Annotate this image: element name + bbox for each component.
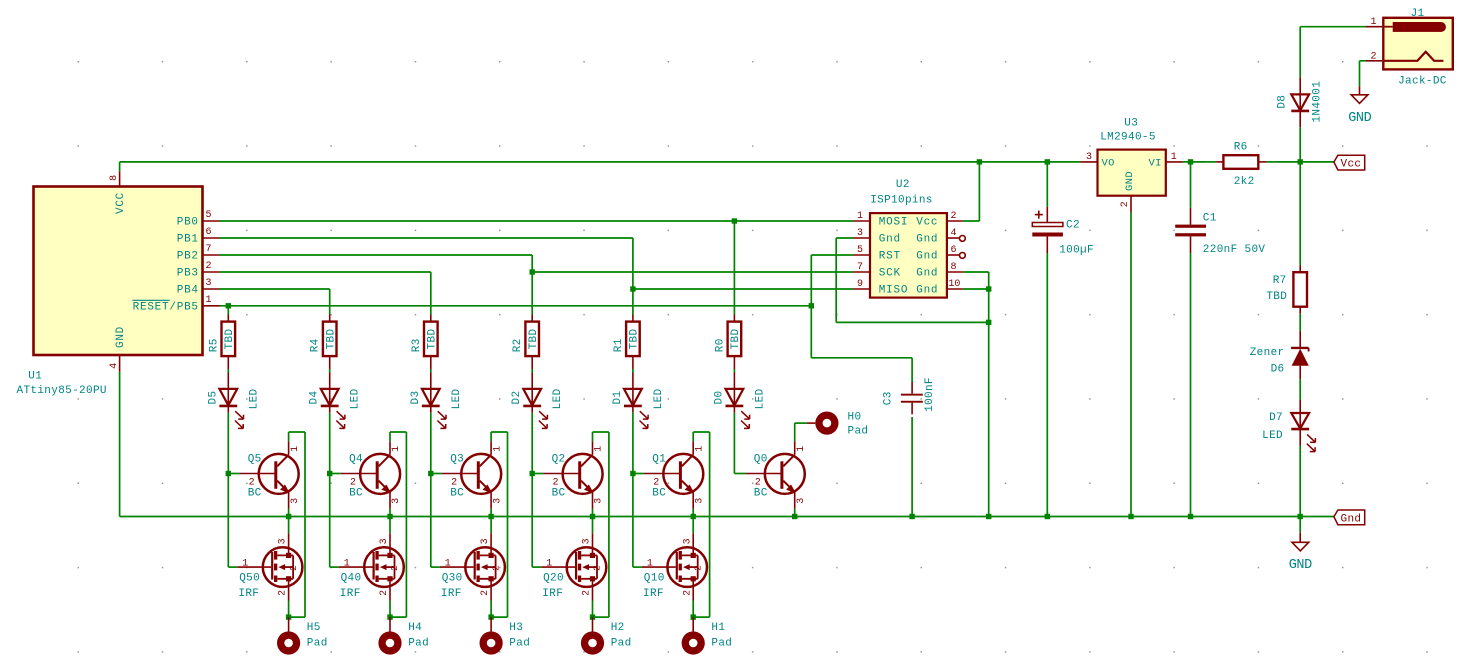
wire source to pad	[490, 601, 492, 618]
diode D8 1N4001	[1277, 81, 1324, 127]
svg-text:VO: VO	[1102, 157, 1115, 169]
wire J1 pin1	[1300, 26, 1383, 28]
svg-text:C1: C1	[1203, 213, 1217, 225]
wire	[531, 406, 533, 474]
svg-text:H5: H5	[307, 622, 321, 634]
svg-text:VCC: VCC	[115, 192, 127, 214]
svg-text:2: 2	[389, 565, 400, 571]
transistor Q0 BC	[734, 441, 807, 509]
svg-text:2: 2	[278, 590, 289, 596]
resistor R3 TBD	[411, 322, 439, 357]
svg-text:9: 9	[857, 279, 863, 290]
svg-text:8: 8	[109, 175, 120, 181]
svg-text:Q10: Q10	[644, 573, 665, 585]
svg-text:1: 1	[445, 558, 451, 569]
regulator U3 LM2940-5	[1080, 118, 1182, 213]
junction pin10	[986, 286, 991, 291]
wire R6 to Vcc label	[1275, 161, 1334, 163]
svg-text:PB4: PB4	[177, 285, 199, 297]
wire RESET to C3	[811, 306, 912, 358]
svg-text:H1: H1	[711, 622, 725, 634]
svg-text:Q40: Q40	[341, 573, 362, 585]
svg-text:1: 1	[796, 446, 807, 452]
svg-text:TBD: TBD	[629, 329, 641, 350]
wire RESET/PB5 rail	[220, 305, 812, 307]
LED D3	[410, 388, 463, 428]
junction C2/Vcc	[1045, 159, 1050, 164]
wire Vcc rail top	[120, 161, 1081, 163]
svg-text:3: 3	[391, 498, 402, 504]
svg-text:1: 1	[290, 446, 301, 452]
junction source/pad	[286, 614, 291, 619]
wire U3 out	[1183, 161, 1207, 163]
svg-text:2: 2	[379, 590, 390, 596]
svg-text:Q3: Q3	[450, 454, 464, 466]
junction PB0/R0	[732, 218, 737, 223]
wire J1 pin2 to GND	[1360, 61, 1367, 95]
svg-text:2: 2	[552, 478, 558, 489]
svg-text:2: 2	[1120, 201, 1131, 207]
junction base/gate	[428, 471, 433, 476]
wire C1 to GND rail	[1190, 253, 1192, 517]
wire emitter to GND rail	[288, 509, 290, 517]
svg-text:D1: D1	[612, 391, 624, 405]
svg-text:Zener: Zener	[1250, 347, 1285, 359]
svg-text:LED: LED	[1262, 430, 1283, 442]
svg-text:H2: H2	[611, 622, 625, 634]
svg-text:1: 1	[857, 211, 863, 222]
svg-text:8: 8	[951, 262, 957, 273]
transistor Q4 BC	[330, 441, 403, 509]
wire GND rail to MOSFET drain	[389, 517, 391, 534]
svg-text:D0: D0	[713, 391, 725, 405]
svg-text:3: 3	[857, 228, 863, 239]
LED D7	[1262, 412, 1315, 451]
svg-text:Gnd: Gnd	[916, 268, 938, 280]
svg-text:C2: C2	[1066, 220, 1080, 232]
wire emitter to GND rail	[794, 509, 796, 517]
capacitor C3 100nF	[882, 358, 936, 415]
svg-text:GND: GND	[1124, 171, 1136, 191]
wire	[329, 356, 331, 389]
power symbol GND under J1	[1348, 95, 1371, 126]
wire RST down to R5	[227, 306, 229, 322]
wire GND rail to MOSFET drain	[490, 517, 492, 534]
svg-text:5: 5	[857, 245, 863, 256]
svg-text:1: 1	[492, 446, 503, 452]
wire collector loop	[491, 432, 507, 617]
junction base/gate	[630, 471, 635, 476]
resistor R4 TBD	[310, 322, 338, 357]
svg-text:J1: J1	[1411, 8, 1425, 20]
svg-text:Jack-DC: Jack-DC	[1398, 76, 1447, 88]
svg-text:3: 3	[582, 538, 593, 544]
svg-text:Q30: Q30	[442, 573, 463, 585]
svg-text:3: 3	[682, 538, 693, 544]
svg-text:2: 2	[451, 478, 457, 489]
svg-text:3: 3	[206, 278, 212, 289]
MOSFET Q10 IRF	[633, 474, 707, 601]
svg-text:TBD: TBD	[325, 329, 337, 350]
svg-text:TBD: TBD	[224, 329, 236, 350]
svg-text:ATtiny85-20PU: ATtiny85-20PU	[17, 385, 107, 397]
svg-text:1: 1	[1370, 17, 1376, 28]
svg-text:VI: VI	[1148, 157, 1161, 169]
wire source to pad	[389, 601, 391, 618]
svg-text:R4: R4	[310, 338, 322, 352]
svg-text:PB3: PB3	[177, 268, 199, 280]
junction C2/GND	[1045, 514, 1050, 519]
svg-text:Vcc: Vcc	[916, 217, 938, 229]
svg-text:2: 2	[490, 565, 501, 571]
wire U2 pin5 RST	[811, 255, 853, 306]
svg-text:3: 3	[694, 498, 705, 504]
svg-text:Q2: Q2	[552, 454, 566, 466]
svg-text:Q50: Q50	[239, 573, 260, 585]
wire	[430, 406, 432, 474]
pad H2	[581, 617, 632, 655]
svg-text:Q5: Q5	[248, 454, 262, 466]
svg-text:H4: H4	[408, 622, 422, 634]
svg-text:1: 1	[546, 558, 552, 569]
junction emitter/GND rail	[387, 514, 392, 519]
svg-text:GND: GND	[115, 326, 127, 348]
svg-text:BC: BC	[552, 488, 566, 500]
svg-text:3: 3	[796, 498, 807, 504]
svg-text:Gnd: Gnd	[916, 234, 938, 246]
svg-text:1: 1	[344, 558, 350, 569]
wire	[1299, 366, 1301, 413]
svg-text:MISO: MISO	[879, 285, 908, 297]
wire	[632, 356, 634, 389]
MOSFET Q40 IRF	[330, 474, 404, 601]
wire	[733, 406, 735, 474]
svg-text:IRF: IRF	[238, 588, 259, 600]
wire	[430, 356, 432, 389]
svg-text:Gnd: Gnd	[1341, 513, 1362, 525]
power symbol GND bottom right	[1289, 517, 1312, 574]
wire Vcc node down to R7	[1299, 162, 1301, 272]
wire PB1	[220, 237, 633, 239]
resistor R1 TBD	[613, 322, 641, 357]
svg-text:TBD: TBD	[528, 329, 540, 350]
svg-text:1: 1	[1171, 152, 1177, 163]
svg-text:Q0: Q0	[754, 454, 768, 466]
svg-text:PB1: PB1	[177, 234, 199, 246]
svg-text:TBD: TBD	[427, 329, 439, 350]
svg-text:D3: D3	[410, 391, 422, 405]
LED D5	[207, 388, 260, 428]
junction emitter/GND rail	[286, 514, 291, 519]
svg-text:6: 6	[206, 227, 212, 238]
wire GND rail to MOSFET drain	[288, 517, 290, 534]
svg-text:3: 3	[480, 538, 491, 544]
connector J1 Jack-DC	[1366, 8, 1453, 88]
transistor Q3 BC	[431, 441, 504, 509]
wire PB0 to MOSI	[220, 220, 854, 222]
junction RESET/RST link	[809, 303, 814, 308]
svg-text:D2: D2	[511, 391, 523, 405]
svg-text:Q1: Q1	[652, 454, 666, 466]
LED D0	[713, 388, 766, 428]
resistor R5 TBD	[208, 322, 236, 357]
svg-text:4: 4	[951, 228, 957, 239]
wire PB4 down to R4	[329, 289, 331, 322]
svg-text:MOSI: MOSI	[879, 217, 908, 229]
svg-text:LED: LED	[754, 388, 766, 409]
wire U2 pin10	[963, 288, 989, 290]
wire U2 pin8	[963, 272, 989, 517]
svg-text:RST: RST	[879, 251, 901, 263]
wire PB2	[220, 254, 533, 256]
global label Gnd	[1300, 510, 1365, 525]
svg-text:2: 2	[288, 565, 299, 571]
wire emitter to GND rail	[389, 509, 391, 517]
svg-text:U1: U1	[28, 371, 42, 383]
wire U2 pin2 Vcc riser	[963, 162, 980, 221]
wire D7 to GND rail	[1299, 429, 1301, 516]
svg-text:Pad: Pad	[307, 637, 328, 649]
wire	[531, 356, 533, 389]
wire PB2 down to R2	[531, 255, 533, 322]
wire source to pad	[692, 601, 694, 618]
wire PB3 down to R3	[430, 272, 432, 322]
wire emitter to GND rail	[692, 509, 694, 517]
svg-text:1: 1	[206, 295, 212, 306]
svg-text:R1: R1	[613, 338, 625, 352]
svg-text:R0: R0	[714, 338, 726, 352]
svg-text:LED: LED	[552, 388, 564, 409]
svg-text:2: 2	[653, 478, 659, 489]
MOSFET Q20 IRF	[532, 474, 606, 601]
svg-text:D7: D7	[1269, 412, 1283, 424]
svg-text:6: 6	[951, 245, 957, 256]
svg-text:TBD: TBD	[1266, 291, 1287, 303]
svg-text:2: 2	[592, 565, 603, 571]
svg-text:5: 5	[206, 210, 212, 221]
svg-text:U2: U2	[896, 179, 910, 191]
svg-text:Pad: Pad	[611, 637, 632, 649]
svg-text:ISP10pins: ISP10pins	[870, 195, 933, 207]
svg-text:1N4001: 1N4001	[1312, 81, 1324, 123]
wire emitter to GND rail	[490, 509, 492, 517]
svg-text:R3: R3	[411, 338, 423, 352]
svg-text:GND: GND	[1289, 558, 1312, 573]
junction source/pad	[590, 614, 595, 619]
wire source to pad	[288, 601, 290, 618]
wire	[733, 356, 735, 389]
svg-text:1: 1	[391, 446, 402, 452]
svg-text:3: 3	[594, 498, 605, 504]
MOSFET Q50 IRF	[228, 474, 302, 601]
svg-text:2: 2	[1370, 52, 1376, 63]
wire collector to pad H0	[795, 423, 816, 441]
junction source/pad	[691, 614, 696, 619]
svg-text:R2: R2	[512, 338, 524, 352]
svg-text:H3: H3	[509, 622, 523, 634]
transistor Q5 BC	[228, 441, 300, 509]
wire PB1 down to R1	[632, 238, 634, 322]
wire collector loop	[390, 432, 406, 617]
svg-text:BC: BC	[754, 488, 768, 500]
svg-text:LED: LED	[653, 388, 665, 409]
svg-text:Gnd: Gnd	[916, 285, 938, 297]
junction U3/GND	[1128, 514, 1133, 519]
wire C2 to GND rail	[1046, 253, 1048, 517]
junction PB1/MISO	[630, 286, 635, 291]
svg-text:R6: R6	[1234, 142, 1248, 154]
svg-text:2: 2	[755, 478, 761, 489]
wire SCK link	[532, 271, 853, 273]
svg-text:220nF 50V: 220nF 50V	[1203, 244, 1266, 256]
MOSFET Q30 IRF	[431, 474, 505, 601]
wire	[1299, 307, 1301, 348]
svg-text:Q4: Q4	[349, 454, 363, 466]
svg-text:2k2: 2k2	[1234, 176, 1255, 188]
svg-text:IRF: IRF	[441, 588, 462, 600]
resistor R2 TBD	[512, 322, 540, 357]
LED D4	[309, 388, 362, 428]
wire D8 to Vcc node	[1299, 127, 1301, 162]
svg-text:SCK: SCK	[879, 268, 901, 280]
junction C1/GND	[1188, 514, 1193, 519]
svg-text:2: 2	[692, 565, 703, 571]
wire	[227, 356, 229, 389]
junction source/pad	[387, 614, 392, 619]
junction source/pad	[488, 614, 493, 619]
svg-text:BC: BC	[450, 488, 464, 500]
svg-text:TBD: TBD	[730, 329, 742, 350]
svg-text:Vcc: Vcc	[1341, 159, 1362, 171]
svg-text:Gnd: Gnd	[879, 234, 901, 246]
wire collector loop	[593, 432, 609, 617]
svg-text:10: 10	[948, 279, 960, 290]
svg-text:2: 2	[249, 478, 255, 489]
junction base/gate	[327, 471, 332, 476]
svg-text:LED: LED	[350, 388, 362, 409]
svg-text:Pad: Pad	[408, 637, 429, 649]
resistor R6 2k2	[1206, 142, 1275, 188]
svg-text:LM2940-5: LM2940-5	[1100, 131, 1156, 143]
svg-text:BC: BC	[349, 488, 363, 500]
svg-text:BC: BC	[248, 488, 262, 500]
junction emitter/GND rail	[488, 514, 493, 519]
svg-text:IRF: IRF	[542, 588, 563, 600]
pad H4	[378, 617, 429, 655]
svg-text:2: 2	[582, 590, 593, 596]
junction Vcc node	[1298, 159, 1303, 164]
svg-text:D8: D8	[1277, 95, 1289, 109]
svg-text:3: 3	[290, 498, 301, 504]
svg-text:1: 1	[694, 446, 705, 452]
junction C1/Vcc	[1188, 159, 1193, 164]
capacitor C2 100uF polarized	[1032, 162, 1094, 257]
resistor R7 TBD	[1266, 272, 1307, 307]
wire source to pad	[592, 601, 594, 618]
junction Gnd link	[986, 320, 991, 325]
svg-text:IRF: IRF	[643, 588, 664, 600]
wire U2 pin3 Gnd	[836, 238, 989, 322]
LED D2	[511, 388, 564, 428]
wire GND rail to MOSFET drain	[592, 517, 594, 534]
junction C3/GND	[909, 514, 914, 519]
pad H0	[815, 412, 868, 438]
IC U1 ATtiny85-20PU	[17, 171, 220, 397]
svg-text:2: 2	[682, 590, 693, 596]
svg-text:4: 4	[109, 363, 120, 369]
svg-text:Gnd: Gnd	[916, 251, 938, 263]
wire GND from U1 pin4	[119, 372, 121, 517]
resistor R0 TBD	[714, 322, 742, 357]
svg-text:3: 3	[278, 538, 289, 544]
wire	[632, 406, 634, 474]
svg-text:1: 1	[594, 446, 605, 452]
svg-text:LED: LED	[451, 388, 463, 409]
svg-text:3: 3	[492, 498, 503, 504]
junction Vcc riser	[977, 159, 982, 164]
svg-text:Pad: Pad	[509, 637, 530, 649]
svg-text:7: 7	[857, 262, 863, 273]
svg-text:H0: H0	[848, 412, 862, 424]
wire MISO link	[633, 288, 853, 290]
svg-text:LED: LED	[248, 388, 260, 409]
svg-text:IRF: IRF	[340, 588, 361, 600]
svg-text:100µF: 100µF	[1059, 245, 1094, 257]
wire PB0 down to R0	[733, 221, 735, 322]
svg-text:2: 2	[951, 211, 957, 222]
junction PB2/SCK	[530, 269, 535, 274]
svg-text:1: 1	[242, 558, 248, 569]
svg-text:1: 1	[647, 558, 653, 569]
transistor Q1 BC	[633, 441, 706, 509]
svg-text:D4: D4	[309, 391, 321, 405]
svg-text:Pad: Pad	[848, 426, 869, 438]
svg-text:2: 2	[350, 478, 356, 489]
wire GND rail bottom	[120, 516, 1301, 518]
junction U2 gnd to rail	[986, 514, 991, 519]
pad H3	[480, 617, 531, 655]
wire C3 to GND rail	[911, 417, 913, 517]
svg-text:3: 3	[379, 538, 390, 544]
wire U3 GND pin	[1130, 213, 1132, 517]
svg-text:2: 2	[206, 261, 212, 272]
svg-text:C3: C3	[882, 391, 894, 405]
pad H1	[682, 617, 733, 655]
wire GND rail to MOSFET drain	[692, 517, 694, 534]
junction emitter/GND rail	[590, 514, 595, 519]
svg-text:D5: D5	[207, 391, 219, 405]
connector U2 ISP10pins	[853, 179, 965, 298]
svg-text:Pad: Pad	[711, 637, 732, 649]
LED D1	[612, 388, 665, 428]
wire VCC from U1 pin8 to Vcc rail	[119, 162, 121, 171]
junction RESET/R5	[226, 303, 231, 308]
svg-text:U3: U3	[1124, 118, 1138, 130]
wire D8 top	[1299, 27, 1301, 95]
junction base/gate	[226, 471, 231, 476]
junction base/gate	[530, 471, 535, 476]
svg-text:2: 2	[480, 590, 491, 596]
pad H5	[277, 617, 328, 655]
svg-text:Q20: Q20	[543, 573, 564, 585]
transistor Q2 BC	[532, 441, 605, 509]
wire PB4	[220, 288, 330, 290]
zener diode D6	[1250, 347, 1309, 375]
svg-text:7: 7	[206, 244, 212, 255]
wire	[227, 406, 229, 474]
junction emitter/GND rail	[792, 514, 797, 519]
junction GND node right	[1298, 514, 1303, 519]
